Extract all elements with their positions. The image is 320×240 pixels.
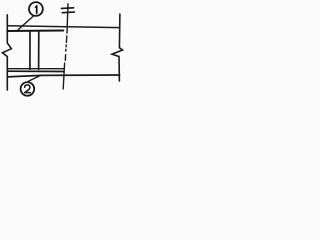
centerline dot 2 xyxy=(65,49,67,51)
stiffener S2 xyxy=(38,31,40,70)
centerline dot 1 xyxy=(65,45,67,47)
break tick mark upper on centerline xyxy=(61,7,73,10)
leader line balloon 1 xyxy=(18,16,33,30)
digit 2 xyxy=(25,85,31,93)
beam top flange underside line xyxy=(7,30,63,33)
break tick mark lower on centerline xyxy=(62,11,74,14)
centerline solid top segment xyxy=(67,4,68,33)
digit 1 flag xyxy=(35,6,36,7)
beam top flange top edge line xyxy=(7,26,120,28)
centerline dash 2 xyxy=(64,55,66,61)
bottom flange upper edge line B1 xyxy=(7,68,63,70)
right break line with zigzag xyxy=(112,14,123,81)
stiffener S1 xyxy=(29,31,31,70)
centerline solid bottom segment xyxy=(63,63,64,89)
digit 1 vertical bar xyxy=(36,6,38,13)
bottom flange upper edge line B2 xyxy=(7,70,63,72)
left break line with zigzag xyxy=(2,15,11,90)
callout balloon circle 2 xyxy=(21,82,35,96)
callout balloon circle 1 xyxy=(29,2,43,16)
leader line balloon 2 xyxy=(28,75,41,81)
bottom flange bottom edge line xyxy=(7,75,119,77)
centerline dash 1 xyxy=(65,36,67,42)
